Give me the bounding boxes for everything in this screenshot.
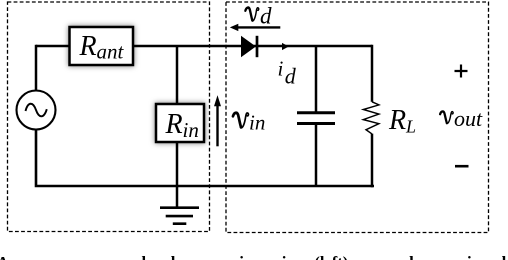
svg-text:d: d — [285, 64, 297, 89]
svg-text:R: R — [79, 31, 97, 62]
plus sign (v_out polarity) — [455, 65, 468, 78]
wire: AC source bottom down to bottom rail — [36, 129, 374, 187]
dashed boundary box: antenna equivalent circuit (left) — [8, 2, 210, 232]
label i_d — [278, 57, 297, 89]
svg-text:R: R — [165, 109, 183, 140]
label v_in — [233, 111, 265, 135]
svg-text:d: d — [166, 253, 176, 260]
label v_out — [440, 106, 483, 131]
svg-text:i: i — [239, 253, 244, 260]
wire: R_L branch upper segment with corner from top rail — [371, 45, 374, 102]
arrow v_in (upward, between boxes) — [214, 95, 221, 146]
resistor R_L (zigzag) — [363, 102, 379, 134]
svg-text:R: R — [388, 105, 406, 136]
AC source sine symbol — [26, 104, 47, 117]
svg-text:L: L — [405, 117, 416, 137]
ground symbol — [160, 208, 199, 224]
label R_ant — [79, 31, 125, 64]
svg-text:A: A — [0, 253, 9, 260]
arrow v_d (leftward, above diode) — [230, 24, 280, 31]
label R_in — [165, 109, 199, 142]
dashed boundary box: rectifier circuit (right) — [226, 2, 489, 233]
svg-text:d: d — [404, 253, 414, 260]
minus sign (v_out polarity) — [455, 165, 469, 168]
svg-text:i: i — [282, 253, 287, 260]
label R_L — [388, 105, 416, 137]
svg-text:out: out — [454, 106, 483, 131]
svg-text:i: i — [278, 57, 284, 81]
svg-text:ant: ant — [97, 40, 125, 64]
resistor R_ant (boxed) — [70, 27, 134, 65]
wire: R_in branch upper segment — [176, 46, 179, 104]
svg-text:in: in — [183, 118, 199, 142]
wire: R_in branch lower segment down to bottom rail — [176, 142, 179, 186]
resistor R_in (boxed) — [156, 104, 204, 142]
wire: R_L branch lower segment down to bottom rail corner — [371, 134, 374, 188]
caption text (glyph tops clipped at bottom edge) — [0, 253, 507, 260]
wire: capacitor branch lower segment — [315, 125, 318, 186]
svg-text:i: i — [467, 253, 472, 260]
svg-text:d: d — [497, 253, 507, 260]
wire: capacitor branch upper segment — [315, 46, 318, 112]
wire: left vertical from top rail down to AC source top — [35, 45, 38, 91]
diode D1 — [241, 36, 257, 57]
current direction arrowhead i_d on wire — [282, 43, 289, 50]
AC source V1 (circle) — [17, 91, 56, 130]
svg-text:(left): (left) — [314, 253, 348, 260]
capacitor C1 plates — [297, 113, 335, 124]
svg-text:in: in — [249, 111, 265, 135]
wire: top rail from source corner to R_L branch corner — [36, 45, 372, 48]
svg-text:d: d — [260, 4, 272, 29]
wire: ground stub — [176, 186, 179, 208]
svg-text:l: l — [142, 253, 147, 260]
label v_d — [245, 4, 272, 29]
